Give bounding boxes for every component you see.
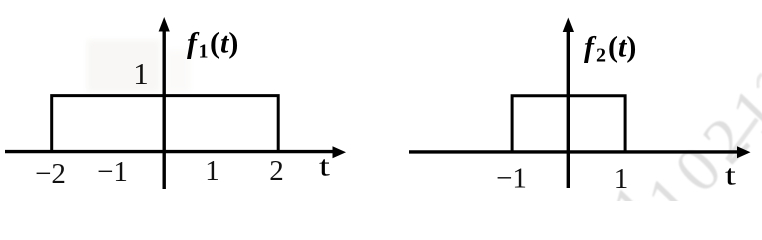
x-axis (right plot)	[409, 146, 751, 158]
x-axis (left plot)	[5, 146, 346, 158]
svg-text:−1: −1	[496, 163, 527, 195]
svg-text:2: 2	[269, 155, 284, 187]
svg-text:−2: −2	[35, 158, 66, 190]
rectangular pulse f1	[52, 96, 279, 152]
watermark stray curve top-right	[758, 74, 762, 88]
svg-text:1: 1	[205, 155, 220, 187]
svg-text:1: 1	[614, 163, 629, 195]
svg-text:1: 1	[133, 56, 149, 91]
svg-text:t: t	[725, 161, 737, 191]
watermark patch near label 1	[87, 40, 190, 92]
svg-text:f1(t): f1(t)	[187, 27, 238, 63]
y-axis (left plot)	[159, 17, 170, 189]
watermark stroke near right arrowhead	[727, 119, 757, 160]
watermark digits 11021	[597, 69, 762, 240]
svg-text:t: t	[319, 152, 331, 182]
svg-text:−1: −1	[97, 156, 128, 188]
rectangular pulse f2	[512, 96, 625, 152]
y-axis (right plot)	[563, 18, 574, 189]
svg-text:f2(t): f2(t)	[584, 31, 636, 67]
